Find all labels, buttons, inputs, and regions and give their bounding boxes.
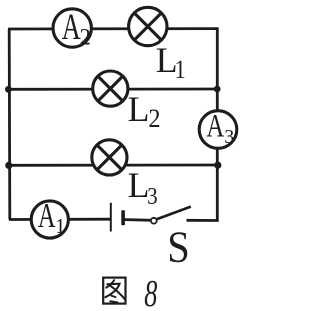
ammeter A3 [199, 108, 237, 148]
svg-text:3: 3 [224, 126, 234, 148]
svg-text:A: A [206, 108, 224, 144]
ammeter A1 [31, 197, 68, 238]
wire: row 3 horizontal [9, 164, 218, 167]
label L1 [156, 40, 186, 85]
wire: right vertical (top-right corner to bottom-right corner) [216, 28, 219, 221]
junction node: right row2 [214, 86, 221, 93]
label L2 [128, 89, 161, 133]
svg-text:2: 2 [148, 105, 160, 133]
svg-text:8: 8 [144, 273, 158, 311]
wire: left vertical (top-left corner to bottom-left corner) [8, 29, 11, 220]
junction node: right row3 [214, 162, 221, 169]
wire: row 2 horizontal [9, 88, 218, 91]
battery cell: long plate (+) [110, 203, 112, 232]
ammeter A2 [53, 7, 91, 50]
svg-text:1: 1 [175, 57, 186, 85]
svg-text:A: A [38, 197, 56, 235]
svg-text:A: A [62, 7, 81, 47]
wire: switch fixed contact to bottom-right corner [187, 219, 219, 222]
junction node: left row3 [5, 162, 12, 169]
svg-text:S: S [167, 223, 190, 272]
wire: bottom segment battery to switch pivot [124, 218, 154, 221]
wire: bottom horizontal left segment (corner to battery) [9, 218, 110, 221]
lamp L1 [129, 7, 167, 45]
lamp L2 [93, 71, 128, 106]
label L3 [128, 165, 158, 209]
battery cell: short thick plate (-) [121, 210, 125, 225]
svg-text:L: L [128, 165, 150, 205]
caption: Chinese character 图 (drawn) [103, 278, 125, 304]
junction node: left row2 [5, 86, 12, 93]
lamp L3 [92, 140, 127, 175]
switch S: pivot terminal circle [151, 218, 157, 224]
svg-text:3: 3 [147, 183, 158, 210]
svg-text:2: 2 [80, 24, 91, 50]
svg-text:L: L [128, 89, 150, 129]
wire: top horizontal (row 1) [8, 27, 219, 30]
svg-text:1: 1 [55, 216, 65, 238]
switch S: lever (open) [156, 207, 191, 220]
